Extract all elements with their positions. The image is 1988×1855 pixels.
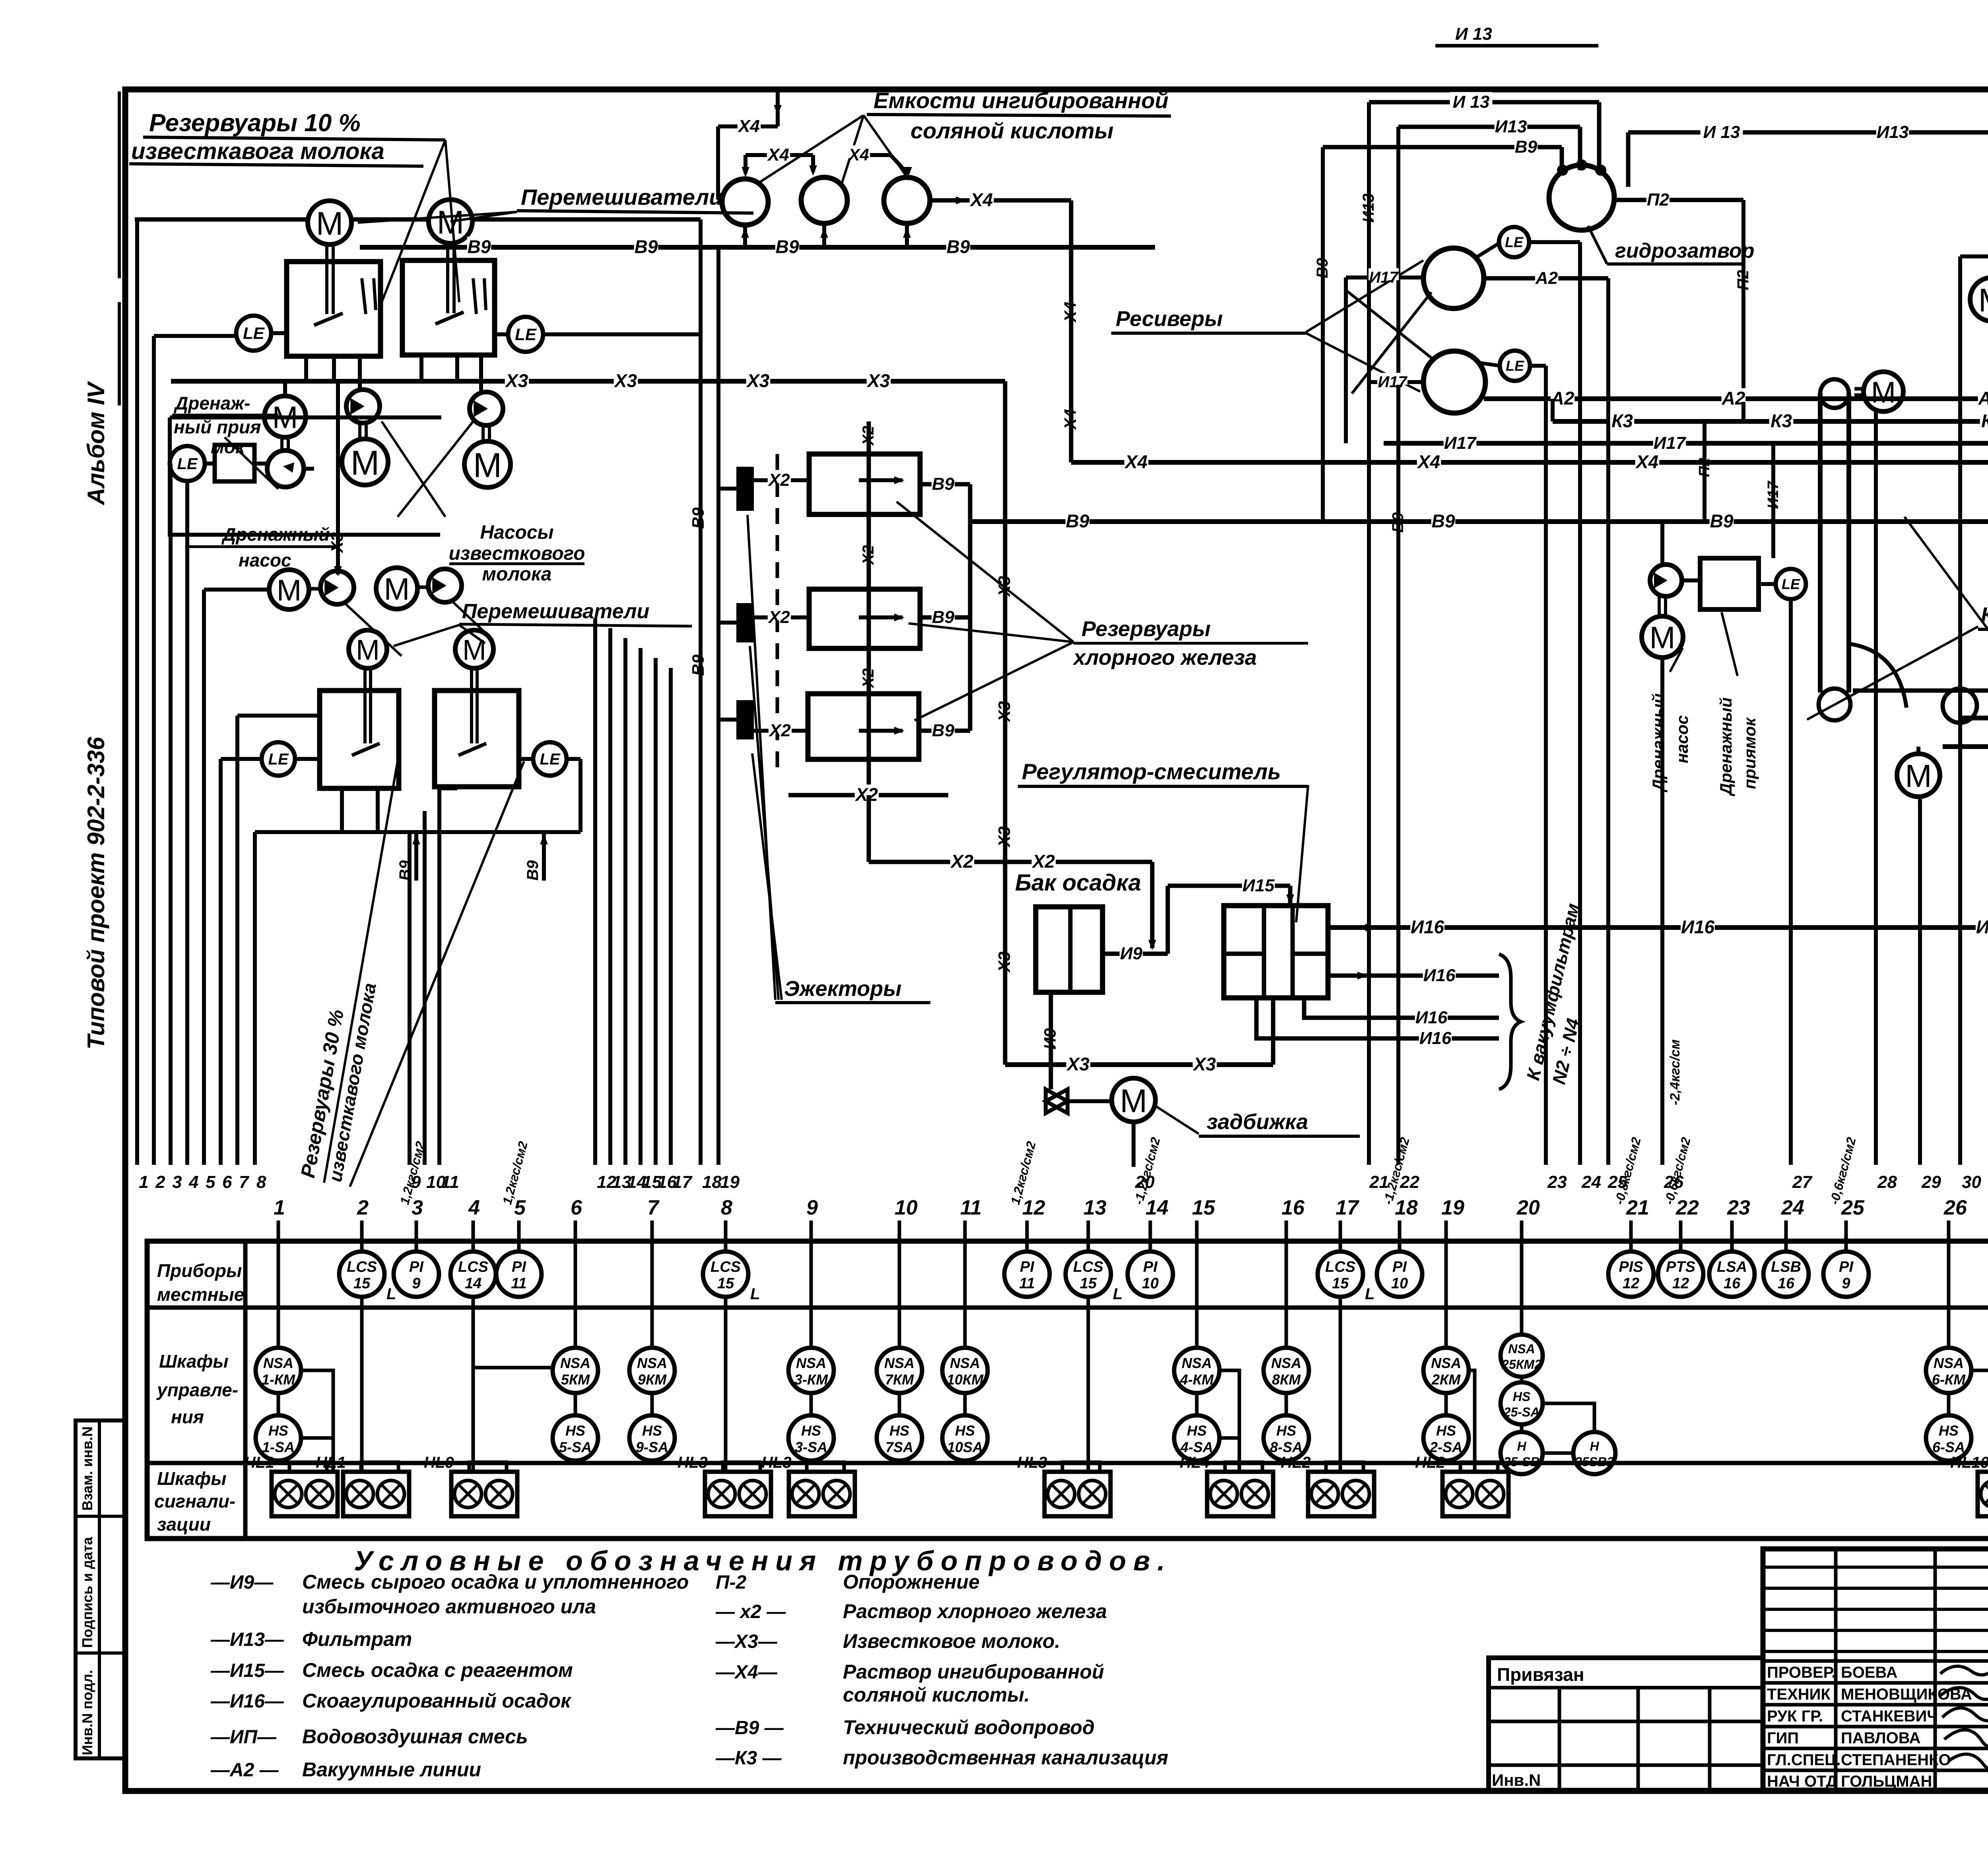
svg-text:—Х3—: —Х3— [715, 1631, 778, 1652]
X3 drop to drain pump [336, 381, 340, 574]
svg-text:3-КМ: 3-КМ [794, 1371, 828, 1387]
svg-text:М: М [1905, 759, 1932, 794]
svg-text:Шкафы: Шкафы [157, 1468, 226, 1489]
svg-text:И17: И17 [1369, 269, 1399, 286]
pump P1 (lime) [346, 390, 380, 423]
svg-text:—Х4—: —Х4— [715, 1662, 778, 1683]
svg-text:2: 2 [357, 1196, 369, 1219]
svg-text:И16: И16 [1423, 966, 1456, 985]
svg-text:Регулятор-смеситель: Регулятор-смеситель [1022, 759, 1281, 784]
wire stub t4 [439, 786, 457, 790]
svg-text:А2: А2 [1978, 388, 1988, 409]
svg-text:17: 17 [672, 1172, 693, 1192]
svg-text:Подпись и дата: Подпись и дата [79, 1537, 95, 1648]
svg-text:Перемешиватели: Перемешиватели [521, 184, 723, 210]
svg-text:Х3: Х3 [995, 952, 1013, 973]
svg-text:10: 10 [895, 1196, 918, 1219]
signal lamp box HL2 [1460, 1462, 1498, 1472]
wire 28 [1874, 411, 1878, 1165]
sidebar stamp boxes [76, 1420, 125, 1758]
svg-text:9: 9 [806, 1196, 818, 1219]
svg-text:11: 11 [511, 1275, 526, 1292]
svg-text:М: М [356, 634, 380, 666]
svg-text:11: 11 [441, 1172, 459, 1192]
wire 1687 [669, 668, 673, 1165]
svg-text:28: 28 [1877, 1172, 1897, 1192]
svg-text:15: 15 [1192, 1196, 1215, 1219]
svg-text:23: 23 [1727, 1196, 1750, 1219]
svg-text:18: 18 [702, 1172, 722, 1192]
svg-text:Н: Н [1590, 1439, 1599, 1453]
svg-text:LCS: LCS [711, 1259, 741, 1275]
svg-text:HS: HS [1939, 1422, 1959, 1439]
svg-text:2-SA: 2-SA [1429, 1439, 1462, 1455]
svg-text:Х3: Х3 [866, 371, 890, 391]
svg-text:HL3: HL3 [761, 1454, 792, 1471]
svg-text:NSA: NSA [1934, 1355, 1964, 1371]
svg-text:М: М [1871, 376, 1896, 409]
svg-text:И13: И13 [1495, 117, 1527, 136]
svg-text:NSA: NSA [796, 1355, 826, 1371]
svg-text:Технический водопровод: Технический водопровод [843, 1716, 1095, 1739]
svg-text:22: 22 [1400, 1172, 1419, 1192]
arrows inside reservoirs [859, 478, 903, 482]
FeCl3 reservoir R3 [808, 694, 919, 759]
svg-text:25КМ2: 25КМ2 [1501, 1357, 1541, 1372]
local instrument LCS-15 col8 [724, 1241, 728, 1252]
svg-text:1: 1 [139, 1172, 148, 1192]
svg-text:В9: В9 [1710, 511, 1734, 532]
svg-text:Дренажный: Дренажный [1716, 697, 1735, 796]
svg-text:HS: HS [1187, 1422, 1207, 1439]
svg-text:И15: И15 [1242, 876, 1275, 895]
svg-text:19: 19 [1441, 1196, 1464, 1219]
svg-text:Привязан: Привязан [1497, 1664, 1584, 1685]
svg-text:24: 24 [1781, 1196, 1804, 1219]
svg-text:4: 4 [468, 1196, 480, 1219]
P2 line from seal [1614, 198, 1743, 202]
svg-text:М: М [1650, 620, 1675, 655]
local instrument PI-10 col18 [1398, 1241, 1402, 1252]
I13 stub above frame [1435, 44, 1598, 48]
svg-text:И16: И16 [1419, 1028, 1452, 1048]
svg-text:LE: LE [1782, 576, 1800, 592]
mixer motor M4 [455, 630, 493, 668]
svg-text:24: 24 [1581, 1172, 1601, 1192]
svg-text:И17: И17 [1378, 373, 1408, 391]
regulator-mixer block [1224, 906, 1328, 998]
level element LE receiver2 [1500, 351, 1530, 381]
svg-text:РУК ГР.: РУК ГР. [1767, 1708, 1823, 1725]
wire 345 [135, 219, 139, 1165]
svg-text:3: 3 [412, 1196, 423, 1219]
local instrument LCS-15 col13 [1087, 1241, 1090, 1252]
svg-text:Х2: Х2 [860, 668, 877, 689]
svg-text:HL4: HL4 [1180, 1454, 1210, 1471]
svg-text:14: 14 [465, 1275, 481, 1292]
wire 1807 [716, 247, 720, 1165]
svg-text:—К3 —: —К3 — [715, 1748, 782, 1769]
svg-text:NSA: NSA [950, 1355, 980, 1371]
svg-text:И 13: И 13 [1453, 92, 1490, 112]
svg-text:14: 14 [1145, 1196, 1169, 1219]
receiver RS2 [1423, 351, 1485, 413]
svg-text:М: М [384, 572, 410, 607]
svg-text:Насосы: Насосы [480, 522, 553, 543]
svg-text:П2: П2 [1734, 270, 1752, 290]
svg-text:В9: В9 [468, 237, 491, 257]
level element LE1 [236, 316, 271, 351]
svg-text:LE: LE [268, 751, 289, 768]
svg-text:15: 15 [1332, 1275, 1349, 1292]
svg-text:управле-: управле- [156, 1380, 238, 1400]
I15 riser and line [1166, 886, 1170, 954]
svg-text:Взам. инв.N: Взам. инв.N [79, 1426, 95, 1511]
svg-text:Х4: Х4 [1417, 452, 1440, 472]
svg-text:В9: В9 [635, 237, 658, 257]
svg-text:хлорного железа: хлорного железа [1072, 646, 1257, 669]
drain pit box right [1700, 558, 1759, 609]
svg-text:Резервуары: Резервуары [1081, 617, 1211, 641]
svg-text:Х4: Х4 [1061, 409, 1079, 430]
svg-text:Шкафы: Шкафы [159, 1351, 228, 1372]
svg-text:Х4: Х4 [767, 145, 789, 165]
svg-text:В9: В9 [524, 860, 542, 881]
wire stub LE1 [154, 334, 238, 338]
svg-text:27: 27 [1792, 1172, 1813, 1192]
svg-text:К3: К3 [1771, 411, 1792, 431]
ejector X2 dashed line [776, 454, 779, 767]
svg-text:И17: И17 [1765, 481, 1782, 509]
svg-text:Х4: Х4 [737, 116, 760, 136]
svg-text:16: 16 [1724, 1275, 1741, 1292]
svg-text:сигнали-: сигнали- [154, 1491, 235, 1512]
wire 387 [152, 336, 156, 1165]
brace to vacuum filters [1499, 954, 1521, 1089]
level element LE3 [262, 742, 295, 776]
svg-text:Эжекторы: Эжекторы [784, 977, 901, 1001]
svg-text:В9: В9 [947, 237, 970, 257]
svg-text:Смесь осадка с реагентом: Смесь осадка с реагентом [302, 1659, 573, 1681]
B9 left vertical [1321, 147, 1325, 522]
svg-text:—А2 —: —А2 — [210, 1760, 279, 1781]
svg-text:Х3: Х3 [995, 827, 1013, 848]
svg-text:производственная канализация: производственная канализация [843, 1746, 1168, 1769]
svg-text:PI: PI [1839, 1259, 1854, 1275]
tank30 bottom stubs [340, 788, 344, 832]
svg-text:Х3: Х3 [995, 701, 1013, 722]
svg-text:8: 8 [721, 1196, 732, 1219]
I13 bus right [1628, 130, 1988, 135]
X4 riser down [1069, 200, 1074, 462]
svg-text:PI: PI [1143, 1259, 1158, 1275]
enclosure lines drain [170, 417, 440, 535]
horizontal conveyor [1853, 689, 1988, 693]
svg-text:1-SA: 1-SA [262, 1439, 295, 1455]
svg-text:СТЕПАНЕНКО: СТЕПАНЕНКО [1841, 1751, 1951, 1769]
second pump motor [376, 568, 417, 609]
svg-text:Смесь сырого осадка и уплотнен: Смесь сырого осадка и уплотненного [302, 1571, 689, 1593]
svg-text:7: 7 [239, 1172, 250, 1192]
svg-text:LSA: LSA [1717, 1259, 1747, 1275]
svg-text:7: 7 [647, 1196, 660, 1219]
svg-text:18: 18 [1395, 1196, 1418, 1219]
svg-text:Х2: Х2 [767, 607, 790, 627]
svg-text:В9: В9 [689, 654, 707, 676]
svg-text:15: 15 [353, 1275, 371, 1292]
mixer motor M1 [308, 201, 351, 244]
svg-text:известкавога молока: известкавога молока [131, 138, 384, 164]
svg-text:НАЧ ОТД: НАЧ ОТД [1767, 1773, 1837, 1790]
svg-text:15: 15 [1080, 1275, 1097, 1292]
receiver cross leaders [1346, 290, 1431, 358]
instrument table frame [147, 1241, 1988, 1539]
signatures [1940, 1666, 1988, 1675]
svg-text:М: М [1120, 1083, 1147, 1119]
level element LE4 [533, 742, 567, 776]
svg-text:—В9 —: —В9 — [715, 1717, 784, 1739]
svg-text:HL1: HL1 [244, 1454, 274, 1471]
ejector EJ2 [738, 605, 752, 641]
svg-text:Х2: Х2 [768, 721, 791, 740]
svg-text:LCS: LCS [1073, 1259, 1103, 1275]
level element LE drain [170, 446, 205, 481]
pipeline K3 bus [1553, 419, 1988, 424]
title block privyazan table [1489, 1658, 1763, 1790]
svg-text:Приборы: Приборы [157, 1260, 242, 1281]
svg-text:HL3: HL3 [1017, 1454, 1047, 1471]
svg-text:HS: HS [565, 1422, 585, 1439]
wire 1497 [593, 618, 597, 1165]
connector col8 [724, 1297, 728, 1472]
vacuum pump motor [1970, 277, 1988, 321]
svg-text:7SA: 7SA [885, 1439, 913, 1455]
svg-text:25-SA: 25-SA [1503, 1405, 1540, 1419]
svg-text:L: L [386, 1285, 396, 1303]
svg-text:Инв.N: Инв.N [1492, 1771, 1541, 1789]
sludge tank [1036, 907, 1103, 992]
svg-text:ный прия: ный прия [174, 417, 261, 437]
FeCl3 reservoir R2 [809, 589, 920, 648]
connector col4 [473, 1297, 553, 1368]
svg-text:8-SA: 8-SA [1270, 1439, 1303, 1455]
svg-text:В9: В9 [689, 507, 707, 529]
leaders pumps [346, 604, 402, 656]
wire 513 [202, 590, 206, 1165]
local instrument PI-9 col25 [1844, 1241, 1848, 1252]
wire 429 [169, 464, 173, 1165]
drain pump motor right [1642, 616, 1683, 658]
svg-text:зации: зации [157, 1514, 211, 1535]
svg-text:5-SA: 5-SA [559, 1439, 592, 1455]
svg-text:20: 20 [1516, 1196, 1540, 1219]
local instrument PTS-12 col22 [1679, 1241, 1683, 1252]
drain pump motor [269, 570, 309, 609]
pipeline X3 upper bus [171, 379, 1005, 384]
left margin ticks [118, 91, 121, 278]
wire 1573 [623, 638, 627, 1165]
svg-text:Х4: Х4 [1635, 452, 1658, 472]
control cabinet NSA/HS col19 [1444, 1241, 1448, 1348]
svg-text:Х3: Х3 [505, 371, 528, 391]
ejector EJ3 [738, 702, 752, 738]
svg-text:ПРОВЕР.: ПРОВЕР. [1767, 1664, 1836, 1681]
svg-text:4: 4 [188, 1172, 198, 1192]
svg-text:ГОЛЬЦМАН: ГОЛЬЦМАН [1841, 1773, 1932, 1790]
svg-text:LE: LE [540, 751, 560, 768]
svg-text:Типовой проект 902-2-336: Типовой проект 902-2-336 [83, 737, 109, 1050]
svg-text:6: 6 [571, 1196, 582, 1219]
wire 1030 [408, 832, 412, 1165]
svg-text:И16: И16 [1681, 917, 1715, 937]
svg-text:HS: HS [889, 1422, 909, 1439]
svg-text:Перемешиватели: Перемешиватели [462, 600, 649, 623]
svg-text:8: 8 [256, 1172, 266, 1192]
wire stub under tanks30 [255, 830, 457, 834]
svg-text:HL1: HL1 [316, 1454, 346, 1471]
level element LE2 [508, 317, 543, 352]
leaders reservoirs 30% [324, 761, 398, 1183]
cross leader lime pumps [382, 421, 445, 517]
svg-text:LE: LE [1505, 234, 1524, 250]
svg-text:26: 26 [1943, 1196, 1967, 1219]
svg-text:LE: LE [515, 325, 537, 344]
svg-text:В9: В9 [932, 474, 955, 494]
svg-text:В9: В9 [932, 721, 955, 740]
svg-text:А2: А2 [1535, 268, 1558, 288]
motor under P2 [464, 441, 511, 487]
svg-text:Известковое молоко.: Известковое молоко. [843, 1630, 1060, 1652]
svg-text:HL10: HL10 [1950, 1454, 1988, 1471]
svg-text:30: 30 [1962, 1172, 1981, 1192]
B9 line to seal [1323, 145, 1562, 149]
drain pit box [215, 445, 254, 481]
local instrument PI-11 col12 [1025, 1241, 1029, 1252]
svg-text:Х2: Х2 [854, 784, 878, 805]
svg-text:Дренажный: Дренажный [221, 524, 330, 545]
svg-text:PTS: PTS [1666, 1259, 1695, 1275]
svg-text:6: 6 [222, 1172, 232, 1192]
I9 drop from tank [1049, 992, 1053, 1065]
svg-text:насос: насос [1673, 715, 1691, 763]
svg-text:PI: PI [409, 1259, 424, 1275]
wire 1535 [608, 628, 612, 1165]
svg-text:— х2 —: — х2 — [715, 1601, 786, 1622]
acid vessel E2 [801, 177, 847, 223]
svg-text:10: 10 [1142, 1275, 1159, 1292]
local instrument LSB-16 col24 [1784, 1241, 1788, 1252]
svg-text:25: 25 [1841, 1196, 1865, 1219]
conveyor motor top [1864, 372, 1903, 411]
motor under P1 [342, 439, 388, 485]
svg-text:25-SB: 25-SB [1503, 1455, 1540, 1469]
wire 29 [1918, 797, 1922, 1165]
svg-text:NSA: NSA [1182, 1355, 1212, 1371]
svg-text:Емкости ингибированной: Емкости ингибированной [874, 88, 1169, 113]
svg-text:6-SA: 6-SA [1932, 1439, 1965, 1455]
svg-text:HL2: HL2 [1415, 1454, 1445, 1471]
svg-text:М: М [473, 446, 502, 485]
control cabinet NSA/HS col7 [650, 1241, 654, 1348]
svg-text:4-SA: 4-SA [1180, 1439, 1213, 1455]
svg-text:NSA: NSA [263, 1355, 293, 1371]
ejector EJ1 [738, 468, 752, 509]
svg-text:L: L [1365, 1285, 1375, 1303]
svg-text:HL9: HL9 [424, 1454, 454, 1471]
svg-text:29: 29 [1921, 1172, 1941, 1192]
wire 1105 [437, 788, 441, 1165]
acid vessel E3 [884, 177, 930, 223]
svg-text:М: М [462, 634, 486, 666]
svg-text:1: 1 [274, 1196, 285, 1219]
connector col20 to HL [1544, 1403, 1594, 1430]
B9 risers under tanks30 [414, 832, 418, 881]
svg-text:PI: PI [512, 1259, 526, 1275]
wire 25 [1606, 278, 1610, 1165]
wire 21 vertical [1367, 102, 1371, 1165]
pipeline A2 bus [1484, 396, 1988, 401]
pump P2 (lime) [470, 392, 503, 425]
X4 feed piping [776, 91, 780, 126]
svg-text:NSA: NSA [1271, 1355, 1301, 1371]
svg-text:19: 19 [720, 1172, 740, 1192]
svg-text:16: 16 [1778, 1275, 1795, 1292]
wire stub LE3 [221, 757, 262, 761]
svg-text:соляной кислоты: соляной кислоты [911, 118, 1114, 143]
svg-text:25SB2: 25SB2 [1574, 1455, 1614, 1469]
svg-text:И 13: И 13 [1455, 24, 1492, 44]
local instrument LSA-16 col23 [1730, 1241, 1734, 1252]
svg-text:Дренажный: Дренажный [1649, 693, 1668, 792]
wire 597 [235, 716, 239, 1165]
svg-text:Бак осадка: Бак осадка [1015, 870, 1141, 896]
svg-text:L: L [1113, 1285, 1122, 1303]
svg-text:М: М [1978, 282, 1988, 318]
X3 long vertical [1003, 381, 1008, 1065]
svg-text:3-SA: 3-SA [795, 1439, 827, 1455]
svg-text:10: 10 [1391, 1275, 1408, 1292]
connector col15 to HL4 [1219, 1370, 1239, 1472]
svg-text:И16: И16 [1976, 917, 1988, 937]
connector col17 [1339, 1297, 1342, 1472]
svg-text:10КМ: 10КМ [947, 1371, 984, 1387]
svg-text:PI: PI [1392, 1259, 1407, 1275]
svg-text:HL3: HL3 [678, 1454, 708, 1471]
svg-text:насос: насос [239, 550, 291, 570]
svg-text:6-КМ: 6-КМ [1932, 1371, 1966, 1387]
svg-text:ния: ния [171, 1407, 204, 1427]
mixer motor M3 [349, 630, 387, 668]
svg-text:И9: И9 [1041, 1028, 1059, 1050]
wire 1611 [639, 648, 643, 1165]
svg-text:М: М [351, 444, 379, 482]
signal lamp box HL3 [1062, 1462, 1100, 1472]
svg-text:гидрозатвор: гидрозатвор [1615, 239, 1755, 262]
pipeline X4 bus [1071, 460, 1988, 465]
B9 collector from reservoirs [920, 482, 970, 487]
tank B1 (10% reservoir) [287, 262, 381, 356]
svg-text:HS: HS [642, 1422, 662, 1439]
svg-text:3: 3 [172, 1172, 182, 1192]
svg-text:приямок: приямок [1740, 717, 1759, 789]
svg-text:К3: К3 [1611, 411, 1633, 431]
control cabinet NSA/HS col15 [1195, 1241, 1199, 1348]
second pump [428, 569, 462, 602]
svg-text:8КМ: 8КМ [1272, 1371, 1301, 1387]
X2 lower segment [788, 793, 948, 797]
local instrument LCS-15 col2 [360, 1241, 364, 1252]
svg-text:Х4: Х4 [848, 145, 869, 164]
